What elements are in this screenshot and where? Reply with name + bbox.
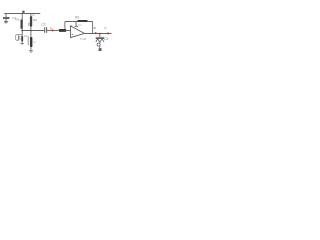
svg-text:U1: U1 [78, 23, 82, 27]
svg-text:C2: C2 [41, 23, 45, 27]
svg-text:TL08: TL08 [80, 37, 87, 41]
svg-text:R4: R4 [24, 34, 28, 38]
svg-text:R2: R2 [33, 18, 37, 22]
svg-text:A: A [50, 27, 52, 31]
svg-text:B: B [94, 26, 96, 30]
svg-text:R3: R3 [75, 15, 79, 19]
svg-text:C3: C3 [104, 37, 108, 41]
svg-text:C: C [104, 26, 107, 30]
svg-text:+: + [71, 24, 73, 28]
svg-text:9V: 9V [32, 14, 35, 17]
svg-text:1k: 1k [33, 41, 36, 44]
svg-text:R1: R1 [15, 18, 19, 22]
